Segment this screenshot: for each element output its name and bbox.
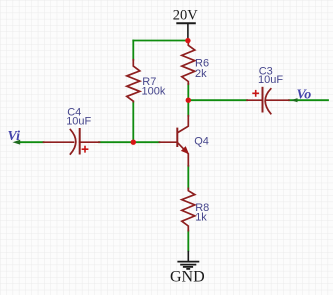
svg-text:10uF: 10uF bbox=[66, 115, 91, 127]
svg-text:Vo: Vo bbox=[297, 87, 312, 102]
svg-text:100k: 100k bbox=[142, 85, 166, 97]
svg-text:2k: 2k bbox=[195, 68, 207, 80]
svg-text:GND: GND bbox=[170, 268, 205, 285]
svg-text:Vi: Vi bbox=[8, 129, 21, 144]
svg-text:10uF: 10uF bbox=[258, 74, 283, 86]
svg-text:20V: 20V bbox=[173, 8, 199, 24]
svg-text:1k: 1k bbox=[195, 212, 207, 224]
svg-text:Q4: Q4 bbox=[194, 136, 209, 148]
